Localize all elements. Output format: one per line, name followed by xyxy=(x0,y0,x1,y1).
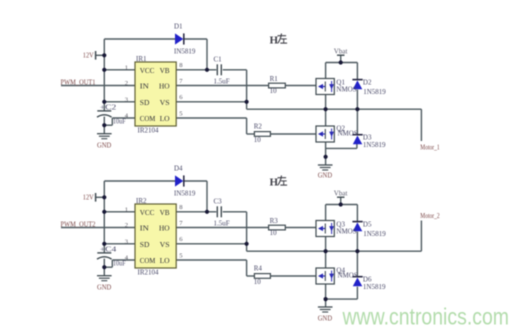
svg-text:GND: GND xyxy=(318,171,332,179)
svg-text:Motor_2: Motor_2 xyxy=(420,212,440,220)
svg-text:12V: 12V xyxy=(83,194,94,202)
svg-text:VCC: VCC xyxy=(140,209,155,217)
svg-text:PWM_OUT1: PWM_OUT1 xyxy=(61,78,96,86)
svg-text:H: H xyxy=(270,34,279,46)
svg-text:1N5819: 1N5819 xyxy=(363,230,386,238)
svg-text:1.5uF: 1.5uF xyxy=(214,220,230,228)
svg-text:HO: HO xyxy=(159,225,170,233)
svg-text:IN: IN xyxy=(140,83,150,91)
svg-text:NMOS: NMOS xyxy=(336,228,356,236)
svg-text:SD: SD xyxy=(140,241,150,249)
svg-text:1N5819: 1N5819 xyxy=(363,141,386,149)
svg-text:Motor_1: Motor_1 xyxy=(420,144,440,152)
svg-text:C3: C3 xyxy=(214,198,223,206)
svg-text:D4: D4 xyxy=(174,164,183,172)
svg-text:NMOS: NMOS xyxy=(336,86,356,94)
svg-text:Vbat: Vbat xyxy=(334,189,348,197)
svg-text:IR2: IR2 xyxy=(136,197,147,205)
svg-text:VB: VB xyxy=(160,67,170,75)
svg-text:10: 10 xyxy=(270,229,278,237)
svg-text:+C2: +C2 xyxy=(100,104,117,111)
svg-text:1: 1 xyxy=(125,206,128,213)
svg-text:LO: LO xyxy=(160,115,170,123)
svg-text:10: 10 xyxy=(254,278,262,286)
svg-text:D2: D2 xyxy=(363,78,372,86)
svg-text:IR2104: IR2104 xyxy=(138,268,160,276)
svg-text:IN: IN xyxy=(140,225,150,233)
svg-text:Vbat: Vbat xyxy=(334,47,348,55)
svg-text:COM: COM xyxy=(140,115,156,123)
svg-text:H: H xyxy=(270,176,279,188)
svg-text:IN5819: IN5819 xyxy=(174,48,196,56)
svg-text:10: 10 xyxy=(254,136,262,144)
svg-text:SD: SD xyxy=(140,99,150,107)
svg-text:12V: 12V xyxy=(83,52,94,60)
svg-text:+C4: +C4 xyxy=(100,246,117,253)
svg-text:NMOS: NMOS xyxy=(338,272,358,280)
svg-text:D1: D1 xyxy=(174,22,183,30)
svg-text:VS: VS xyxy=(160,99,170,107)
svg-text:IN5819: IN5819 xyxy=(174,190,196,198)
svg-text:GND: GND xyxy=(318,315,332,323)
svg-text:GND: GND xyxy=(97,141,111,149)
svg-text:R4: R4 xyxy=(254,265,263,273)
svg-text:2: 2 xyxy=(125,80,128,87)
svg-text:R1: R1 xyxy=(270,75,279,83)
svg-text:1N5819: 1N5819 xyxy=(363,283,386,291)
svg-text:COM: COM xyxy=(140,257,156,265)
svg-text:LO: LO xyxy=(160,257,170,265)
svg-text:R3: R3 xyxy=(270,217,279,225)
svg-text:VCC: VCC xyxy=(140,67,155,75)
svg-text:R2: R2 xyxy=(254,123,263,131)
svg-text:10: 10 xyxy=(270,87,278,95)
svg-text:VS: VS xyxy=(160,241,170,249)
svg-text:VB: VB xyxy=(160,209,170,217)
svg-text:D5: D5 xyxy=(363,220,372,228)
svg-text:HO: HO xyxy=(159,83,170,91)
svg-text:GND: GND xyxy=(97,283,111,291)
svg-text:1.5uF: 1.5uF xyxy=(214,78,230,86)
svg-text:www.cntronics.com: www.cntronics.com xyxy=(342,304,509,330)
svg-text:1: 1 xyxy=(125,64,128,71)
svg-text:1N5819: 1N5819 xyxy=(363,88,386,96)
svg-text:C1: C1 xyxy=(214,56,223,64)
svg-text:IR1: IR1 xyxy=(136,55,147,63)
svg-text:PWM_OUT2: PWM_OUT2 xyxy=(61,220,96,228)
svg-text:2: 2 xyxy=(125,222,128,229)
svg-text:NMOS: NMOS xyxy=(338,130,358,138)
svg-text:IR2104: IR2104 xyxy=(138,126,160,134)
